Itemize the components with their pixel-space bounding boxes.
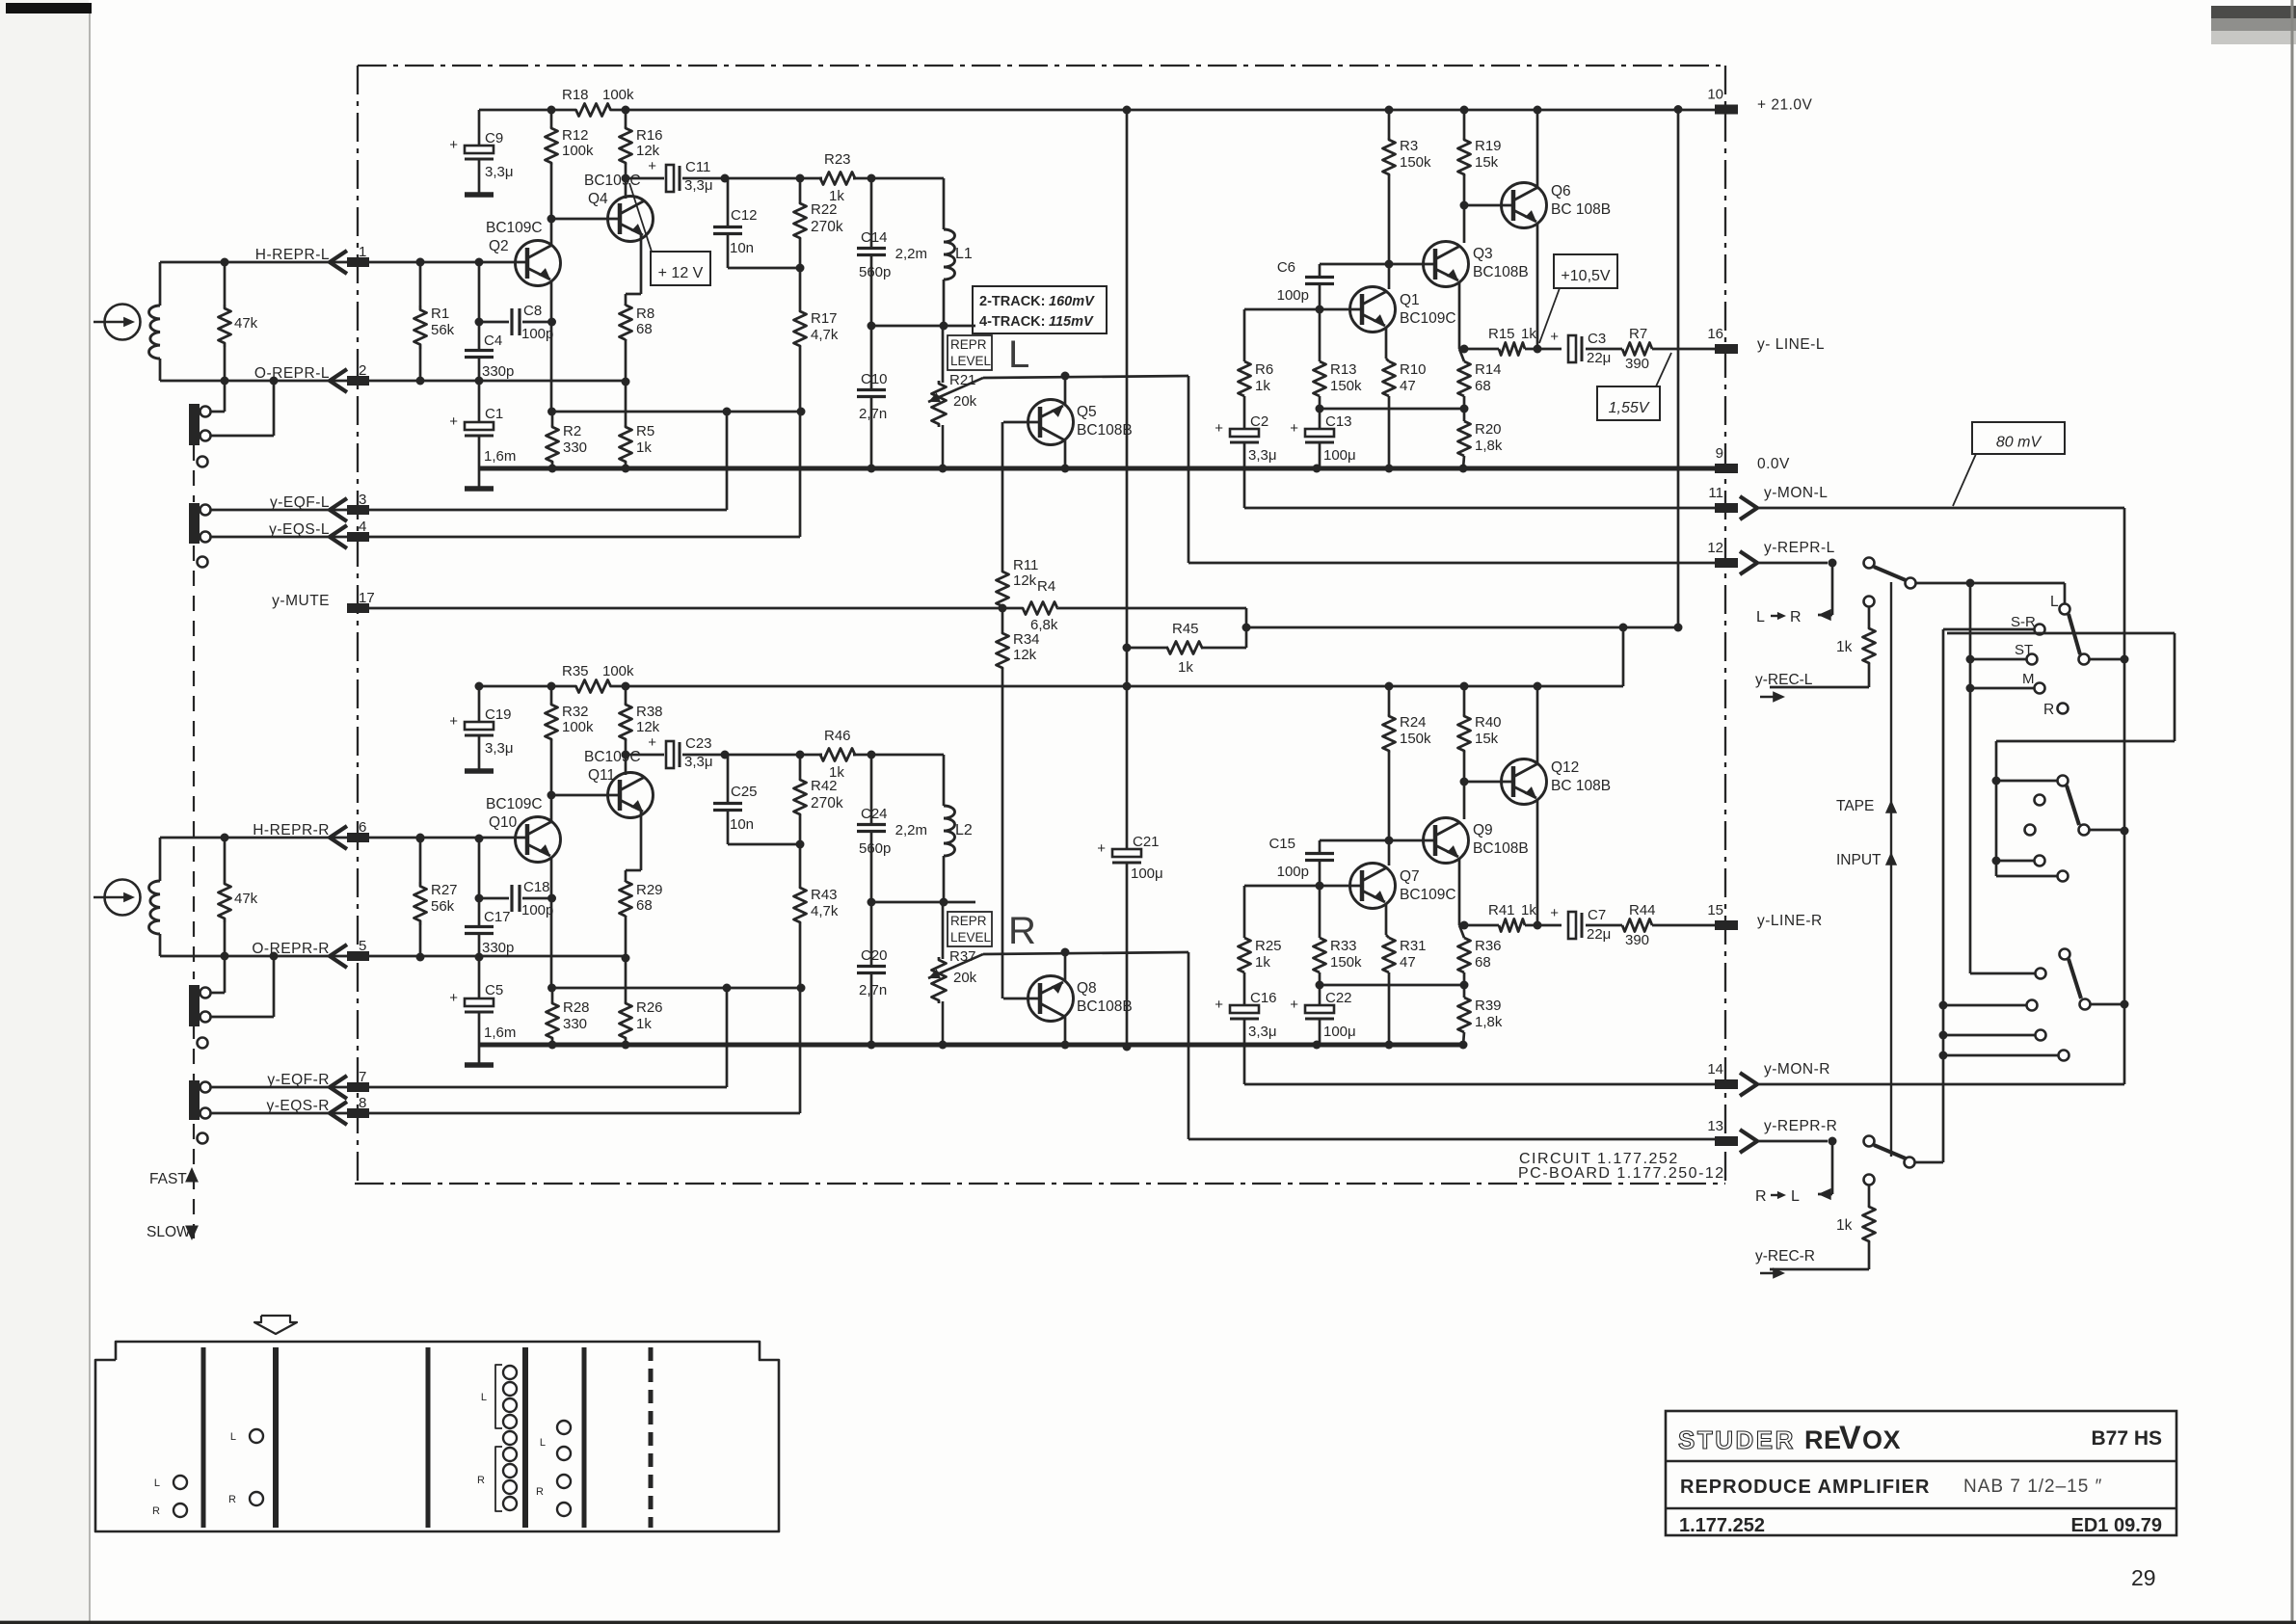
svg-text:L: L [1791,1188,1800,1205]
svg-text:C8: C8 [523,303,542,319]
svg-text:Q8: Q8 [1077,980,1097,997]
svg-text:C11: C11 [685,159,710,175]
switch contact S-R [1943,614,2045,1162]
svg-text:+: + [1550,905,1559,921]
svg-text:4,7k: 4,7k [811,903,839,919]
resistor R36 68 [1458,925,1502,985]
svg-text:R32: R32 [562,704,589,720]
resistor R39 1,8k [1458,985,1503,1050]
svg-text:12k: 12k [636,719,660,735]
svg-text:R: R [1755,1188,1767,1205]
svg-text:R: R [477,1475,485,1486]
svg-text:C17: C17 [484,909,511,925]
svg-text:330p: 330p [482,940,514,956]
svg-text:C16: C16 [1250,990,1277,1006]
wire R8 to O-row [625,916,627,958]
svg-text:REPR: REPR [950,914,987,928]
svg-text:R39: R39 [1475,998,1502,1014]
svg-text:15: 15 [1707,902,1723,918]
svg-text:Q11: Q11 [588,767,615,784]
svg-text:11: 11 [1708,485,1723,501]
svg-text:Q1: Q1 [1400,292,1420,308]
wire R->L branch [1755,1141,1832,1205]
pin 6 H-REPR-R [253,819,369,849]
svg-text:BC109C: BC109C [1400,310,1456,327]
box 80mV callout [1953,422,2065,506]
svg-text:13: 13 [1707,1118,1723,1134]
capacitor C2 3,3u [1215,413,1276,508]
wire H-REPR-L row [160,258,525,267]
svg-text:L: L [2050,594,2059,610]
resistor R4 6,8k [1002,578,1246,633]
wire wiper signal row [983,948,1188,957]
svg-text:+: + [1097,840,1106,857]
svg-text:R27: R27 [431,882,458,898]
svg-text:150k: 150k [1400,154,1431,171]
svg-text:5: 5 [359,938,366,954]
svg-text:+ 12 V: + 12 V [658,265,704,281]
wire R13-R14 row [1316,405,1469,413]
svg-text:6: 6 [359,819,366,836]
svg-text:560p: 560p [859,264,891,280]
head pole bar 2 [273,1347,279,1528]
svg-text:R3: R3 [1400,138,1418,154]
wire Q4 base row [547,215,621,224]
svg-text:R42: R42 [811,778,838,794]
resistor R20 1,8k [1458,409,1503,473]
svg-text:7: 7 [359,1069,366,1085]
svg-text:R26: R26 [636,999,663,1016]
resistor R44 390 [1622,902,1715,948]
resistor R27 56k [414,835,458,962]
box +10,5V callout [1539,254,1617,343]
svg-text:у-EQS-L: у-EQS-L [269,521,330,538]
svg-text:R40: R40 [1475,714,1502,731]
head pole bar 3 [426,1347,431,1528]
svg-text:12k: 12k [1013,647,1037,663]
svg-text:C10: C10 [861,371,888,387]
svg-text:2: 2 [359,362,366,379]
capacitor C13 100u [1290,409,1355,468]
svg-text:BC108B: BC108B [1473,264,1529,280]
wire Q4 base row [547,791,621,800]
svg-text:1,6m: 1,6m [484,448,516,465]
svg-text:1k: 1k [1521,326,1536,342]
svg-text:+: + [449,137,458,153]
switch contact M [1966,583,2045,973]
svg-text:H-REPR-L: H-REPR-L [255,247,330,263]
svg-text:LEVEL: LEVEL [950,930,992,945]
head gap circles column B [228,1429,263,1505]
wire R16 column [622,106,630,179]
resistor R43 4,7k [794,887,839,988]
svg-text:L: L [481,1392,487,1403]
svg-text:у-REC-R: у-REC-R [1755,1248,1815,1265]
svg-text:100p: 100p [1277,287,1309,304]
svg-text:+: + [449,413,458,430]
resistor R3 150k [1383,106,1432,290]
scan right edge line [2291,0,2294,1624]
capacitor C23 3,3u (series) [622,734,726,770]
svg-text:4-TRACK:: 4-TRACK: [979,314,1045,330]
wire signal to Y-REPR pin [1188,952,1715,1139]
wire Q4 collector [625,755,627,775]
wire Q3 base/emitter [1320,840,1459,925]
resistor R25 1k [1239,886,1282,998]
resistor R1 56k [414,258,455,386]
svg-text:2,2m: 2,2m [895,246,927,262]
capacitor C25 10n [713,755,805,849]
open terminal below eq pot [198,1133,208,1144]
FAST arrow [149,1167,199,1187]
svg-text:+: + [449,990,458,1006]
wire Y-EQF-L row [369,509,727,512]
svg-text:у-EQS-R: у-EQS-R [267,1098,331,1114]
ground symbol below C1 [465,1062,494,1068]
resistor R11 12k [997,422,1039,607]
ground symbol below C9 [465,192,494,198]
svg-text:M: M [2022,671,2035,687]
capacitor C24 560p [857,755,891,902]
svg-text:150k: 150k [1330,954,1362,971]
svg-text:270k: 270k [811,219,843,235]
SLOW arrow [147,1224,199,1240]
svg-text:+: + [648,158,656,174]
svg-text:у-MON-R: у-MON-R [1764,1061,1830,1078]
svg-text:R: R [536,1486,544,1498]
svg-text:O-REPR-L: O-REPR-L [254,365,330,382]
svg-text:C7: C7 [1588,907,1606,923]
svg-text:R25: R25 [1255,938,1282,954]
svg-text:+: + [1290,997,1298,1013]
transistor Q10 BC109C [486,796,561,863]
svg-text:R31: R31 [1400,938,1427,954]
svg-text:R15: R15 [1488,326,1515,342]
svg-text:47k: 47k [234,891,258,907]
scan bottom edge line [0,1621,2296,1624]
switch lower group pole [1970,949,2124,1010]
svg-text:1k: 1k [1255,954,1270,971]
resistor R23 1k [820,151,855,204]
svg-text:4: 4 [359,519,366,535]
svg-text:R: R [152,1505,160,1517]
svg-text:S-R: S-R [2011,614,2036,630]
resistor R32 100k [546,703,595,741]
svg-text:8: 8 [359,1095,366,1111]
head pole bar 4 [522,1347,528,1528]
inductor L2 2,2m [895,806,973,902]
TAPE INPUT pointer line [1836,582,1897,1157]
svg-text:R20: R20 [1475,421,1502,438]
svg-text:L: L [154,1478,160,1489]
svg-text:12: 12 [1707,540,1723,556]
svg-text:BC109C: BC109C [584,173,641,189]
svg-text:NAB 7 1/2–15 ″: NAB 7 1/2–15 ″ [1963,1477,2102,1497]
svg-text:INPUT: INPUT [1836,852,1882,868]
pin 17 у-MUTE [272,590,375,613]
svg-text:у-EQF-L: у-EQF-L [270,494,330,511]
capacitor C9 3,3u [449,130,513,180]
svg-text:3,3μ: 3,3μ [684,754,713,770]
svg-text:100μ: 100μ [1323,447,1356,464]
wire R12 column [547,682,556,796]
svg-text:100p: 100p [1277,864,1309,880]
switch REPR-L pole [1864,558,2066,604]
wire vertical x=1741 rail to node [1674,105,1683,627]
svg-text:+10,5V: +10,5V [1561,268,1610,284]
svg-text:R36: R36 [1475,938,1502,954]
logo REVOX [1804,1420,1901,1456]
svg-text:SLOW: SLOW [147,1224,191,1240]
wire Q1 base row [1244,882,1362,891]
ground symbol below C1 [465,486,494,492]
pin 1 H-REPR-L [255,244,369,274]
svg-text:47k: 47k [234,315,258,332]
svg-text:R22: R22 [811,201,838,218]
open terminal below pot [198,1038,208,1049]
svg-text:L: L [230,1431,236,1443]
svg-text:C3: C3 [1588,331,1606,347]
resistor R46 1k [820,728,855,781]
wire Y-REPR-R to switch [1755,1136,1943,1168]
svg-text:у-REPR-R: у-REPR-R [1764,1118,1837,1134]
pin 13 у-REPR-R [1707,1118,1837,1153]
transistor Q4 BC109C [584,173,654,242]
svg-text:4,7k: 4,7k [811,327,839,343]
svg-text:L: L [540,1437,546,1449]
resistor R2 330 [547,412,588,468]
text CIRCUIT / PC-BOARD [1518,1151,1725,1182]
open terminal below pot [198,457,208,467]
wire EQS-R vertical [799,990,802,1113]
svg-text:R23: R23 [824,151,851,168]
wire C11 row to R23 [721,751,823,759]
svg-text:C12: C12 [731,207,758,224]
wire 0V bus (channel L) [479,465,1726,473]
capacitor C18 100p [479,879,553,918]
svg-text:BC108B: BC108B [1077,422,1133,439]
head coil [149,838,161,956]
svg-text:BC108B: BC108B [1077,998,1133,1015]
wire Y-EQS-R row [369,1112,800,1115]
wire Y-LINE row [1460,921,1500,930]
resistor R42 270k [794,755,843,887]
svg-text:100k: 100k [562,719,594,735]
svg-text:PC-BOARD 1.177.250-12: PC-BOARD 1.177.250-12 [1518,1165,1725,1182]
wire +21V rail (channel L) [479,109,1725,112]
svg-text:C1: C1 [485,406,503,422]
svg-text:C19: C19 [485,706,512,723]
svg-text:BC108B: BC108B [1473,840,1529,857]
resistor R10 47 [1383,359,1427,468]
capacitor C5 1,6m [449,957,516,1063]
svg-text:R19: R19 [1475,138,1502,154]
svg-text:R38: R38 [636,704,663,720]
svg-text:REPRODUCE AMPLIFIER: REPRODUCE AMPLIFIER [1680,1477,1930,1498]
svg-text:у-EQF-R: у-EQF-R [267,1072,330,1088]
svg-text:22μ: 22μ [1587,350,1611,366]
svg-text:68: 68 [636,321,653,337]
resistor R41 1k [1488,902,1562,932]
transistor Q11 BC109C [584,749,654,818]
svg-text:3,3μ: 3,3μ [1248,447,1277,464]
switch middle free contacts [2025,795,2045,836]
wire Q2 emitter column [547,857,556,993]
wire Q3 base/emitter [1320,264,1459,349]
wire C9 column [478,686,481,722]
pin 7 у-EQF-R [267,1069,369,1099]
switch middle group pole [1992,776,2125,836]
resistor 47k head load [219,262,258,381]
svg-text:TAPE: TAPE [1836,798,1874,814]
svg-text:C9: C9 [485,130,503,146]
switch middle lower contacts [1992,856,2069,882]
svg-text:1k: 1k [1521,902,1536,918]
capacitor C3 22u (series) [1550,329,1622,366]
svg-text:100k: 100k [602,663,634,679]
svg-text:C13: C13 [1325,413,1352,430]
svg-text:160mV: 160mV [1049,294,1095,309]
wire C9 column [478,110,481,146]
svg-text:2,7n: 2,7n [859,406,887,422]
wire right loop upper [1947,633,2175,876]
svg-text:47: 47 [1400,954,1416,971]
svg-text:20k: 20k [953,393,977,410]
svg-text:+: + [648,734,656,751]
box 1,55V callout [1597,353,1671,420]
svg-text:BC 108B: BC 108B [1551,778,1611,794]
wire R12 column [547,106,556,220]
svg-text:1,6m: 1,6m [484,1025,516,1041]
svg-text:+: + [449,713,458,730]
wire Q2 collector to R12 [550,795,553,822]
svg-text:STUDER: STUDER [1678,1425,1796,1454]
pin 2 O-REPR-L [254,362,369,392]
svg-text:O-REPR-R: O-REPR-R [252,941,330,957]
svg-text:0.0V: 0.0V [1757,456,1790,472]
pin 15 у-LINE-R [1707,902,1822,930]
pin 10 + 21.0V [1707,87,1812,115]
svg-text:22μ: 22μ [1587,926,1611,943]
transistor Q1 BC109C [1350,287,1456,333]
svg-text:C2: C2 [1250,413,1268,430]
svg-text:1.177.252: 1.177.252 [1679,1515,1765,1536]
svg-text:1,8k: 1,8k [1475,1014,1503,1030]
svg-text:390: 390 [1625,356,1649,372]
svg-text:H-REPR-R: H-REPR-R [253,822,330,839]
svg-text:R33: R33 [1330,938,1357,954]
svg-text:C20: C20 [861,947,888,964]
potentiometer R37 20k [928,902,983,1050]
transistor Q7 BC109C [1350,864,1456,909]
capacitor C15 100p [1268,836,1334,886]
resistor R28 330 [547,988,590,1045]
pin 11 у-MON-L [1708,485,1828,519]
svg-text:R24: R24 [1400,714,1427,731]
wire EQS-L vertical [799,412,802,537]
wire emitter feedback row [552,408,806,416]
wire L->R branch [1756,563,1832,626]
wire Y-MON-R stub [1755,1083,2124,1086]
svg-text:R18: R18 [562,87,589,103]
svg-text:29: 29 [2131,1565,2156,1590]
wire C11 row to R23 [721,174,823,183]
svg-text:+: + [1550,329,1559,345]
page scan left margin edge [0,0,89,1624]
svg-text:330p: 330p [482,363,514,380]
head gap circles column D [536,1421,571,1516]
svg-text:L: L [1756,609,1765,626]
svg-text:R41: R41 [1488,902,1515,918]
svg-text:R44: R44 [1629,902,1656,918]
capacitor C20 2,7n [857,902,888,1050]
svg-text:C4: C4 [484,333,502,349]
svg-text:R14: R14 [1475,361,1502,378]
wire R23 to L1 top [853,174,944,230]
wire Q4 emitter to R8 [626,812,641,882]
wire R13-R14 row [1316,981,1469,990]
wire R8 to O-row [625,339,627,382]
svg-text:1: 1 [359,244,366,260]
wire R16 column [622,682,630,756]
capacitor C10 2,7n [857,326,888,473]
svg-text:RE: RE [1804,1425,1842,1454]
svg-text:150k: 150k [1400,731,1431,747]
svg-text:Q5: Q5 [1077,404,1097,420]
resistor R8 68 [620,306,655,340]
capacitor C22 100u [1290,985,1355,1045]
svg-text:330: 330 [563,1016,587,1032]
box 2-TRACK/4-TRACK levels [973,286,1107,333]
svg-text:C23: C23 [685,735,712,752]
svg-text:+ 21.0V: + 21.0V [1757,97,1813,114]
wire 0V bus (channel R) [479,1041,1464,1050]
resistor R16 12k [620,126,663,165]
wire Y-REPR-L to switch [1755,559,1837,568]
svg-text:BC109C: BC109C [584,749,641,765]
transistor Q3 BC108B [1424,242,1529,287]
svg-text:100p: 100p [521,902,553,918]
svg-text:R21: R21 [949,372,976,388]
capacitor C17 330p [465,909,514,956]
svg-text:14: 14 [1707,1061,1723,1078]
resistor R35 100k (inline rail) [562,663,634,693]
svg-text:B77 HS: B77 HS [2091,1427,2162,1450]
wire Q6 base/collector/emitter [1464,682,1542,930]
svg-text:Q12: Q12 [1551,759,1579,776]
switch contact R (open) [2043,702,2069,718]
svg-text:OX: OX [1862,1425,1901,1454]
capacitor C21 100u [1097,834,1162,1052]
svg-text:Q3: Q3 [1473,246,1493,262]
svg-text:C18: C18 [523,879,550,895]
tape head source symbol [93,880,141,916]
wire signal to Y-REPR pin [1188,376,1715,563]
pc-board boundary frame (dash-dot) [355,66,1725,1184]
ground symbol below C9 [465,768,494,774]
svg-text:L1: L1 [955,246,973,262]
svg-text:100μ: 100μ [1323,1024,1356,1040]
svg-text:10n: 10n [730,816,754,833]
svg-text:10: 10 [1707,87,1723,103]
svg-text:1k: 1k [1178,659,1193,676]
pin 8 у-EQS-R [267,1095,370,1125]
svg-text:C6: C6 [1277,259,1295,276]
wire Q2 emitter column [547,280,556,416]
level potentiometer [189,381,274,445]
svg-text:3,3μ: 3,3μ [485,164,514,180]
svg-text:+: + [1215,420,1223,437]
